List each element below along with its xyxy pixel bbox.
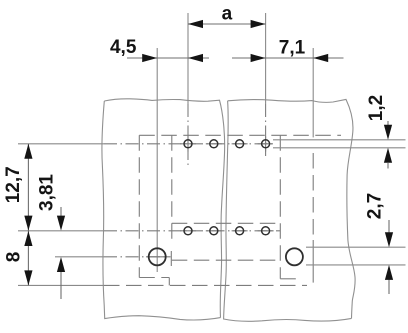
arrowhead dim 1,2 lower (points up) bbox=[384, 148, 392, 163]
svg-text:a: a bbox=[222, 3, 233, 24]
vertical ticks through pin row 1 col1 and col4 bbox=[187, 137, 189, 152]
pin hole row1 col2 bbox=[210, 140, 218, 148]
center line cross through mounting hole M1 bbox=[146, 256, 169, 258]
arrowhead dim a right bbox=[251, 20, 266, 28]
pin hole row2 col4 bbox=[262, 227, 270, 235]
arrowhead dim 1,2 upper (points down) bbox=[384, 125, 392, 140]
pin row 1 center line across boards bbox=[104, 143, 272, 145]
svg-text:8: 8 bbox=[4, 252, 25, 263]
dimension line 7,1 with tail bbox=[232, 57, 344, 59]
svg-text:3,81: 3,81 bbox=[37, 174, 58, 211]
svg-text:7,1: 7,1 bbox=[279, 37, 306, 58]
pin hole row2 col2 bbox=[210, 227, 218, 235]
arrowhead dim 4,5 left (points right at V1) bbox=[142, 54, 157, 62]
arrowhead dim 3,81 upper (points down at row2 line) bbox=[57, 216, 65, 231]
svg-text:1,2: 1,2 bbox=[366, 95, 387, 121]
arrowhead dim 4,5 right (points left at V2) bbox=[188, 54, 203, 62]
pin hole row2 col1 bbox=[184, 227, 192, 235]
dashed housing outline: bottom edge right piece bbox=[280, 278, 302, 280]
dimension line a bbox=[188, 23, 266, 25]
svg-text:2,7: 2,7 bbox=[365, 193, 386, 219]
pin row 2 center line extension to left dimension bbox=[18, 230, 104, 232]
solder slot row 2 bottom line bbox=[306, 264, 406, 266]
vertical tick at end of mounting hole center line bbox=[170, 251, 172, 266]
dashed housing outline: top edge bbox=[139, 134, 341, 136]
pin hole row2 col3 bbox=[236, 227, 244, 235]
dimension line 1,2 lower tail bbox=[387, 163, 389, 169]
dashed housing outline: bottom step left piece bbox=[168, 278, 170, 286]
dashed housing outline: long bottom edge across boards bbox=[104, 284, 307, 286]
pin row 1 center line extension to left dimension bbox=[18, 143, 104, 145]
pin hole row1 col4 bbox=[262, 140, 270, 148]
center line ticks through pin row 1 bbox=[180, 143, 196, 145]
board piece 2 outline (torn PCB section right) bbox=[224, 101, 352, 322]
dimension line 1,2 upper tail bbox=[387, 121, 389, 125]
extension line V1 for dim 4,5 / mounting hole center bbox=[156, 48, 158, 272]
center line ticks through pin row 2 bbox=[180, 230, 196, 232]
arrowhead dim 3,81 lower (points up at hole line) bbox=[57, 257, 65, 272]
mounting hole center line extension to left dimension bbox=[55, 256, 104, 258]
mounting hole center line across board 1 bbox=[104, 256, 171, 258]
mounting hole M1 bbox=[149, 248, 166, 265]
pin hole row1 col3 bbox=[236, 140, 244, 148]
dimension line 4,5 with leader bbox=[127, 57, 209, 59]
dimension line 2,7 lower tail bbox=[388, 280, 390, 295]
dashed housing front lower edge between inner edges bbox=[172, 259, 280, 261]
solder slot row 1 bottom line bbox=[273, 147, 406, 149]
extension line V3 for dim a (right) bbox=[265, 13, 267, 104]
dashed housing outline: right inner edge bbox=[279, 135, 281, 278]
bottom edge extension line to left dimension bbox=[18, 284, 104, 286]
arrowhead dim 8 top (points up) bbox=[24, 231, 32, 246]
arrowhead dim 8 bottom (points down) bbox=[24, 270, 32, 285]
dimension line 2,7 upper tail bbox=[388, 220, 390, 233]
dashed housing outline: left inner edge bbox=[171, 135, 173, 239]
dashed housing outline: bottom edge left piece bbox=[139, 277, 169, 279]
solder slot row 1 top line bbox=[273, 139, 406, 141]
center line through pin column 1 bbox=[187, 104, 189, 169]
mounting hole M2 bbox=[286, 248, 303, 265]
arrowhead dim 2,7 upper (points down) bbox=[385, 232, 393, 247]
pin hole row1 col1 bbox=[184, 140, 192, 148]
board piece 1 outline (torn PCB section left) bbox=[104, 99, 224, 318]
dimension line 3,81 lower tail bbox=[60, 272, 62, 300]
svg-text:4,5: 4,5 bbox=[110, 37, 137, 58]
dimension line 3,81 upper tail bbox=[60, 207, 62, 216]
arrowhead dim 12,7 top (points up) bbox=[24, 144, 32, 159]
arrowhead dim 12,7 bottom (points down) bbox=[24, 216, 32, 231]
arrowhead dim 7,1 left (points right at V3) bbox=[251, 54, 266, 62]
arrowhead dim 2,7 lower (points up) bbox=[385, 265, 393, 280]
dashed housing outline: left outer edge bbox=[138, 135, 140, 277]
board piece 2 top edge and torn right edge bbox=[228, 99, 356, 318]
arrowhead dim a left bbox=[188, 20, 203, 28]
dashed housing outline: right outer edge (extension of 7,1 line) bbox=[312, 153, 314, 235]
arrowhead dim 7,1 right (points left at V4) bbox=[313, 54, 328, 62]
dashed housing outline: middle front edge bbox=[172, 222, 280, 224]
extension line V2 for dim a (left) bbox=[187, 13, 189, 104]
dashed housing outline: right outer edge lower part bbox=[312, 240, 314, 283]
pin row 2 center line across boards bbox=[104, 230, 280, 232]
board piece 1 left edge and bottom edge bbox=[102, 101, 221, 320]
solder slot row 2 top line bbox=[306, 246, 406, 248]
extension line V4 for dim 7,1 bbox=[312, 48, 314, 137]
svg-text:12,7: 12,7 bbox=[3, 166, 24, 203]
left dimension line (12,7 and 8) bbox=[27, 144, 29, 286]
center line through pin column 4 bbox=[265, 104, 267, 156]
